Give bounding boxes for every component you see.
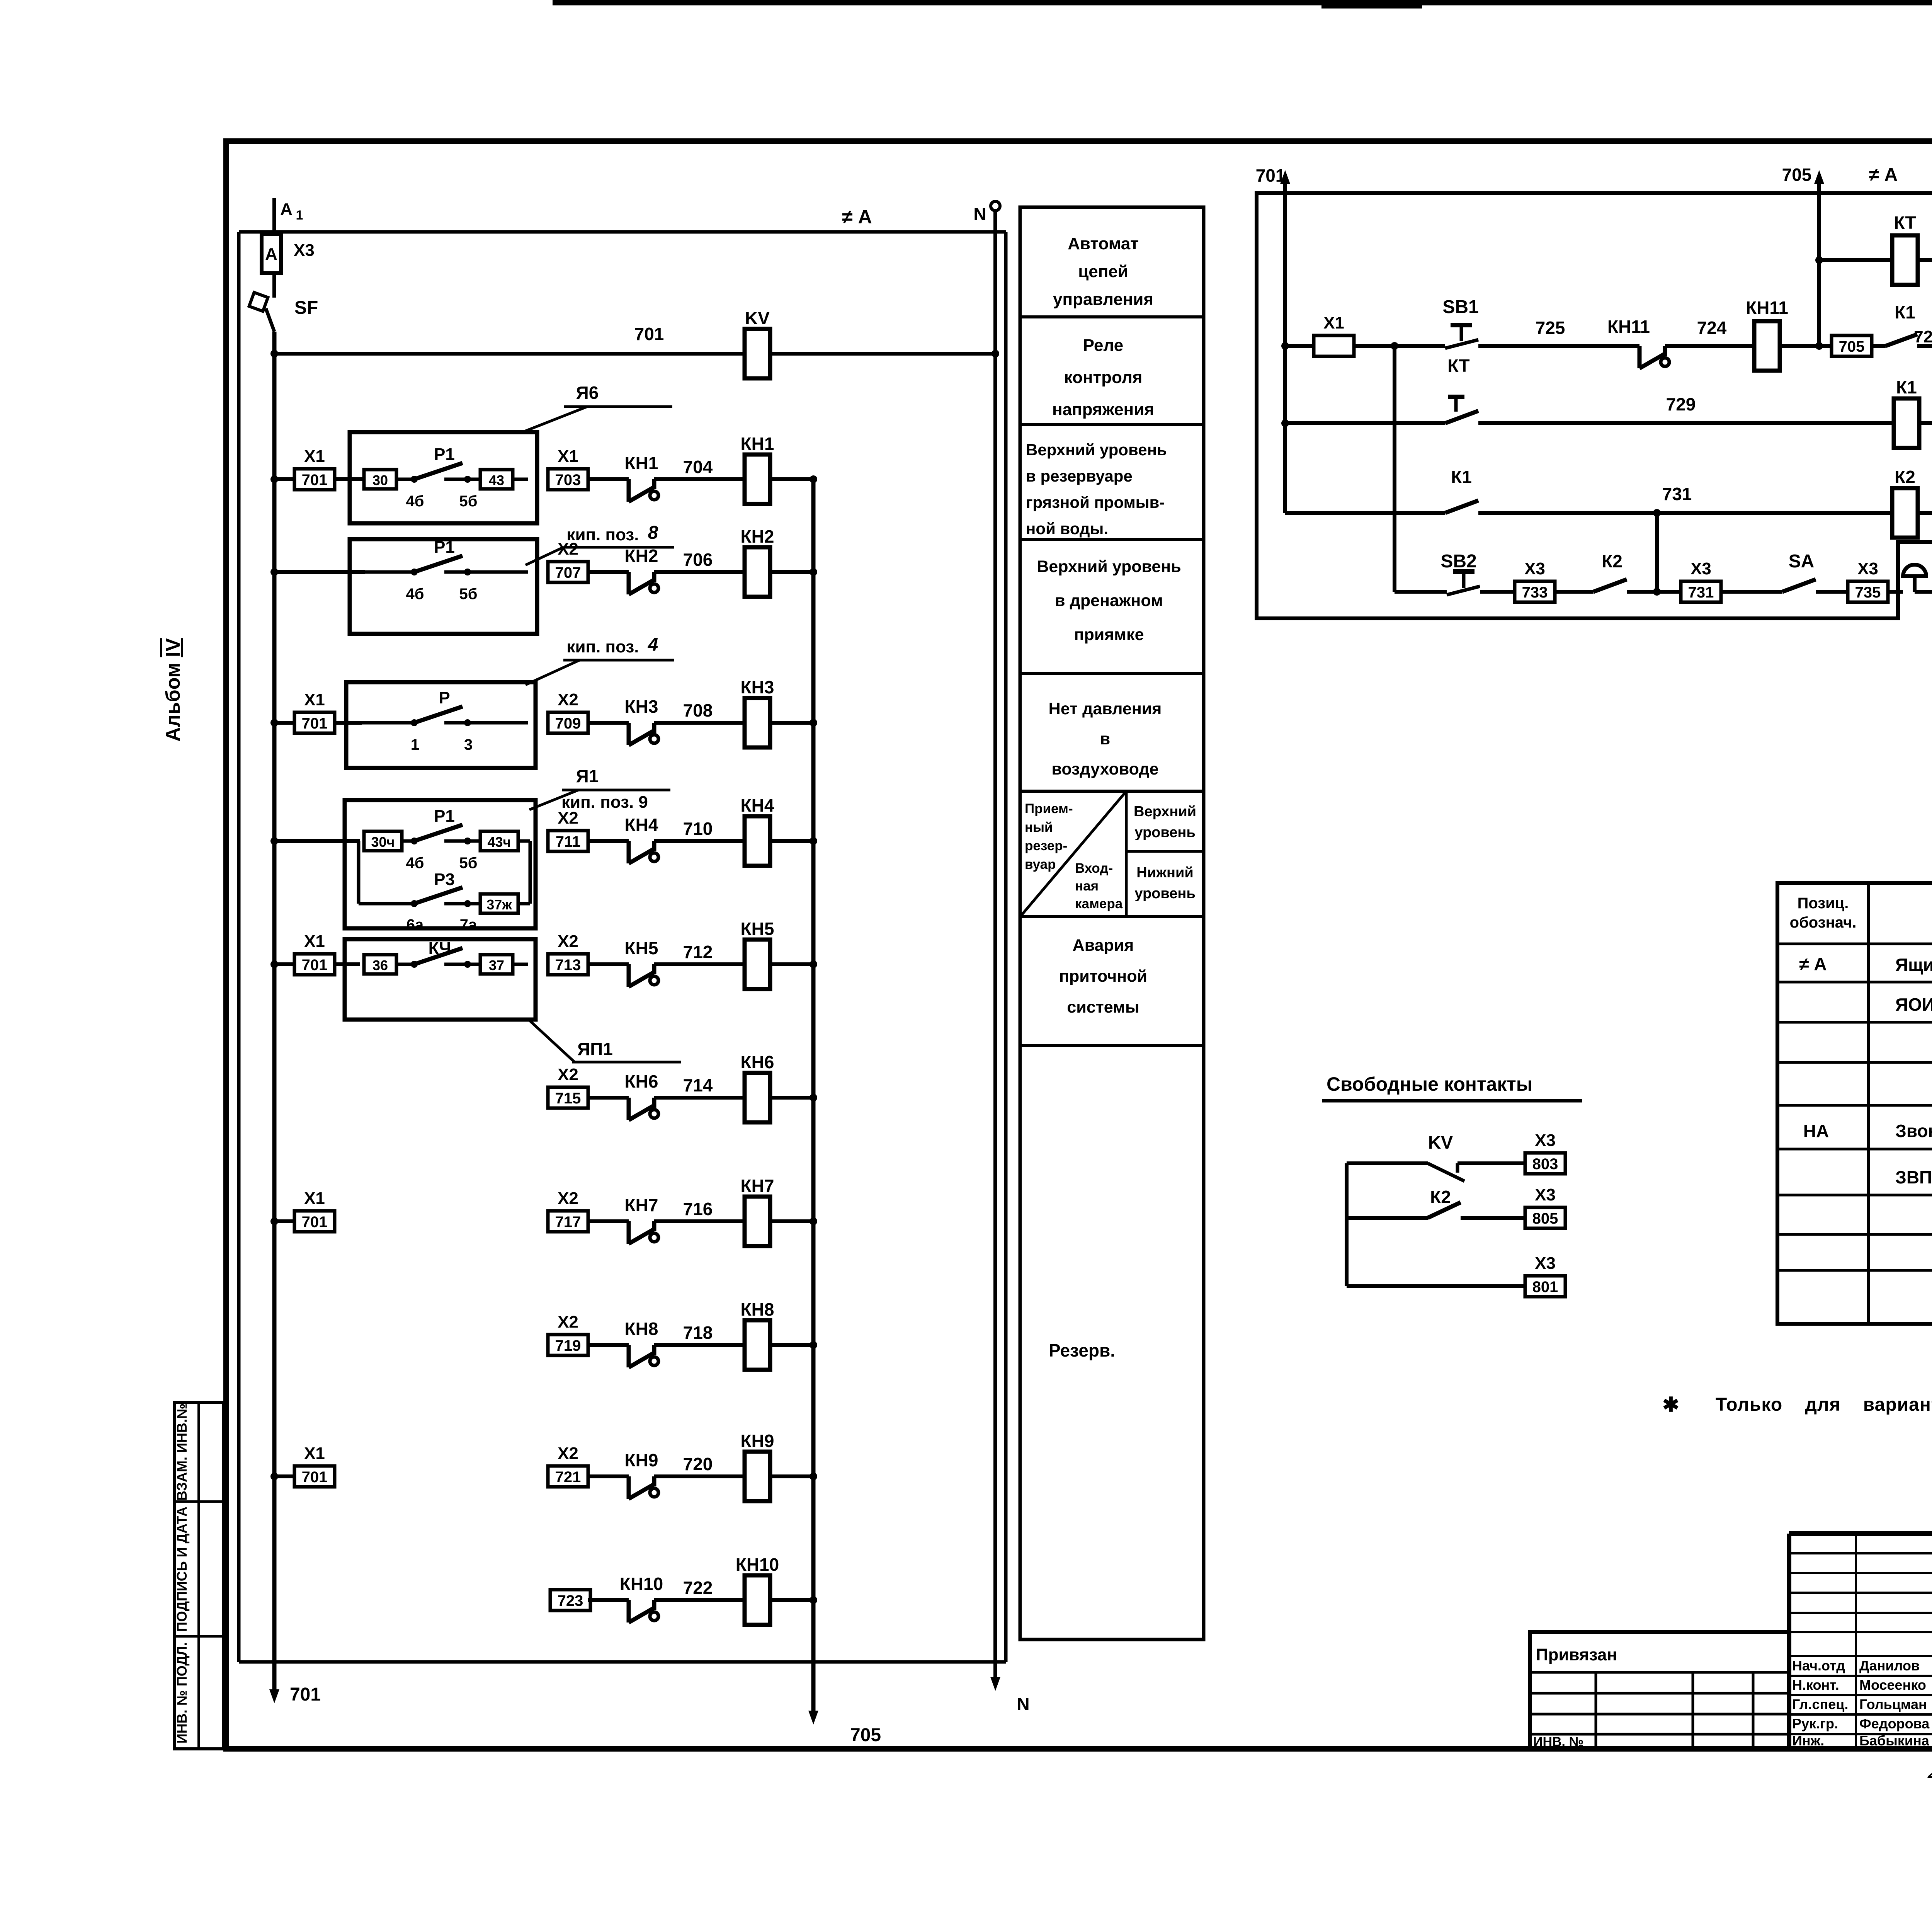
svg-text:805: 805 — [1532, 1210, 1558, 1227]
svg-text:Верхний: Верхний — [1134, 804, 1196, 820]
svg-text:ЗВП-220, ТУ16.739-059-76: ЗВП-220, ТУ16.739-059-76 — [1895, 1167, 1932, 1187]
contact KH4 — [629, 841, 658, 863]
svg-text:Мосеенко: Мосеенко — [1859, 1677, 1926, 1693]
title left block row line 4 — [1530, 1733, 1789, 1736]
svg-text:Позиц.: Позиц. — [1798, 895, 1849, 912]
terminal 43ч in box YA1 — [480, 831, 518, 851]
label contact KH5 — [625, 938, 658, 958]
label 5b r4 — [459, 855, 478, 872]
svg-text:Р3: Р3 — [434, 870, 455, 889]
wire contact to coil KH6 — [654, 1096, 745, 1100]
left stamp column outer box — [175, 1403, 223, 1749]
svg-text:Ящик сигнализации: Ящик сигнализации — [1895, 955, 1932, 975]
bus 701 right-circuit vertical — [1283, 184, 1287, 513]
section title Свободные контакты — [1327, 1073, 1532, 1095]
riser rung3 to rung4 — [1655, 513, 1659, 592]
svg-text:ная: ная — [1075, 878, 1099, 894]
junction dot bus N at wire 701 — [992, 350, 999, 358]
enclosure box A top edge — [239, 230, 1006, 234]
wire 705 node to terminal — [1819, 344, 1832, 348]
middle table text cell reserve — [1049, 1340, 1115, 1360]
side caption Альбом IV — [162, 638, 184, 742]
node dot r5 right+lead — [444, 961, 480, 968]
svg-text:733: 733 — [1522, 584, 1548, 601]
svg-text:≠ А: ≠ А — [1799, 954, 1827, 974]
svg-text:КТ: КТ — [1894, 213, 1916, 233]
wire 705 riser arrow up — [1814, 170, 1824, 184]
svg-text:803: 803 — [1532, 1156, 1558, 1173]
terminal X3 803 — [1525, 1131, 1565, 1174]
terminal X2 711 row 4 — [548, 809, 588, 851]
stamp label Инв.№ подл. — [174, 1642, 190, 1743]
svg-text:727: 727 — [1914, 327, 1932, 346]
contact K1 no rung1 — [1886, 334, 1932, 346]
svg-text:✱: ✱ — [1662, 1394, 1679, 1416]
svg-text:X1: X1 — [304, 690, 325, 709]
callout label YA1 — [576, 766, 599, 786]
terminal X1 701 row 3 — [294, 690, 335, 733]
wire X2 to contact KH5 — [588, 962, 629, 966]
junction dot 705 riser KT rung — [1815, 256, 1823, 264]
footnote asterisk — [1662, 1394, 1679, 1416]
wire coil KH1 to bus R — [770, 477, 813, 481]
wire X2 to contact KH6 — [588, 1096, 629, 1100]
node N circle top — [991, 201, 1000, 211]
wire A1 drop — [272, 198, 276, 234]
wire coil KH8 to bus R — [770, 1343, 813, 1347]
stamp label Взам.инв.№ — [174, 1403, 190, 1501]
svg-text:Нет давления: Нет давления — [1049, 700, 1162, 718]
pushbutton SB2 — [1447, 572, 1480, 595]
svg-text:Бабыкина: Бабыкина — [1859, 1733, 1930, 1748]
signature table grid — [1789, 1534, 1932, 1749]
relay coil K1 — [1894, 377, 1919, 448]
node 4b dot — [411, 476, 418, 483]
pushbutton SB1 — [1445, 325, 1478, 348]
svg-text:уровень: уровень — [1134, 885, 1195, 902]
wire bus L to X1 box row 1 — [274, 477, 294, 481]
svg-text:X1: X1 — [304, 1189, 325, 1208]
label 4b r4 — [406, 855, 424, 872]
bus 701 right-circuit arrow up — [1280, 170, 1290, 184]
svg-text:ПОДПИСЬ И ДАТА: ПОДПИСЬ И ДАТА — [174, 1507, 190, 1632]
svg-text:X2: X2 — [558, 932, 578, 951]
wire 701 to coil KV — [274, 352, 745, 356]
junction dot bus R row 7 — [810, 1217, 817, 1225]
wire X1 to sensor box row 1 — [335, 477, 365, 481]
wire contact to coil KH9 — [654, 1474, 745, 1478]
svg-text:722: 722 — [683, 1578, 713, 1598]
breaker SF symbol — [249, 293, 274, 332]
riser SB2 vertical — [1393, 346, 1396, 592]
svg-text:Рук.гр.: Рук.гр. — [1792, 1716, 1838, 1731]
spec row HA pos — [1803, 1121, 1829, 1141]
relay coil K2 — [1892, 467, 1918, 538]
callout leader YAP1 — [529, 1020, 681, 1062]
svg-text:725: 725 — [1536, 318, 1565, 338]
svg-text:SB1: SB1 — [1442, 297, 1478, 317]
svg-text:707: 707 — [555, 564, 581, 581]
contact KV free — [1428, 1163, 1464, 1181]
svg-text:X1: X1 — [304, 447, 325, 466]
label wire 720 — [683, 1454, 713, 1474]
wire contact to coil KH4 — [654, 839, 745, 843]
label 3 — [464, 736, 473, 753]
svg-text:43ч: 43ч — [488, 834, 511, 850]
enclosure box A left edge — [237, 232, 241, 1662]
svg-text:X2: X2 — [558, 1444, 578, 1463]
label K2 free — [1430, 1187, 1451, 1207]
drawing frame border — [226, 141, 1932, 1749]
svg-text:кип. поз.: кип. поз. — [566, 637, 639, 656]
wire riser to SB1 — [1395, 344, 1445, 348]
label SF — [294, 298, 318, 318]
label wire 729 — [1666, 394, 1696, 414]
svg-text:ИНВ. №: ИНВ. № — [1533, 1735, 1583, 1749]
junction dot bus L wire 701 — [270, 350, 278, 358]
relay coil KH8 — [741, 1299, 774, 1370]
spec row1 pos ≠A — [1799, 954, 1827, 974]
left stamp divider line 1 — [175, 1500, 223, 1503]
wire bell to bus N — [1915, 590, 1932, 594]
relay coil KH11 — [1746, 298, 1788, 371]
terminal 30 in box YA6 — [364, 470, 396, 489]
junction dot bus R row 8 — [810, 1341, 817, 1349]
svg-text:4б: 4б — [406, 586, 424, 603]
svg-text:К2: К2 — [1895, 467, 1915, 487]
label 701 bottom arrow — [290, 1684, 321, 1705]
svg-text:Звонок электрический: Звонок электрический — [1895, 1121, 1932, 1141]
svg-text:X3: X3 — [1524, 559, 1545, 578]
svg-text:SA: SA — [1789, 551, 1815, 572]
terminal 30ч in box YA1 — [364, 831, 402, 851]
junction dot bus R row 3 — [810, 719, 817, 727]
svg-text:ный: ный — [1025, 820, 1053, 835]
relay coil KT — [1892, 213, 1918, 285]
junction dot bus R row 5 — [810, 960, 817, 968]
svg-text:приточной: приточной — [1059, 967, 1147, 986]
middle table split text upper-left — [1025, 801, 1073, 872]
svg-text:Н.конт.: Н.конт. — [1792, 1677, 1839, 1693]
contact P1 row2 left lead — [365, 570, 414, 574]
middle table split cell diagonal — [1020, 791, 1126, 917]
junction dot rung2 left — [1281, 419, 1289, 427]
spec row2 name — [1895, 994, 1932, 1015]
svg-text:709: 709 — [555, 715, 581, 732]
svg-text:7а: 7а — [460, 916, 477, 933]
wire SB1 to KH11 contact — [1478, 344, 1639, 348]
terminal X2 715 row 6 — [548, 1065, 588, 1108]
label wire 701 — [634, 324, 664, 344]
contact P1 blade row2 — [414, 556, 463, 572]
svg-text:КН2: КН2 — [625, 546, 658, 566]
svg-text:КН4: КН4 — [625, 815, 658, 835]
svg-text:К1: К1 — [1896, 377, 1917, 397]
junction dot rung3 — [1653, 509, 1661, 517]
svg-text:1: 1 — [411, 736, 419, 753]
title left block row line 3 — [1530, 1713, 1789, 1716]
terminal X1 right-circuit — [1314, 313, 1354, 356]
title block outline top — [1789, 1531, 1932, 1536]
svg-text:ИНВ. № ПОДЛ.: ИНВ. № ПОДЛ. — [174, 1642, 190, 1743]
wire 735 to bell — [1888, 590, 1903, 594]
svg-text:Свободные контакты: Свободные контакты — [1327, 1073, 1532, 1095]
handwritten archive number — [1926, 1759, 1932, 1783]
svg-text:Реле: Реле — [1083, 336, 1124, 355]
svg-text:Гольцман: Гольцман — [1859, 1696, 1927, 1712]
svg-text:705: 705 — [1839, 338, 1865, 355]
svg-text:системы: системы — [1067, 998, 1139, 1016]
wire bus L to sensor box row 4 — [274, 839, 360, 843]
left stamp column divider vertical — [197, 1403, 200, 1749]
svg-text:КН4: КН4 — [741, 795, 774, 815]
junction dot riser SB2 — [1391, 342, 1398, 350]
svg-text:704: 704 — [683, 457, 713, 477]
label contact KH7 — [625, 1195, 658, 1215]
junction dot bus R row 4 — [810, 837, 817, 845]
wire 43 to box edge — [513, 478, 528, 481]
bus R vertical (coil return 705) — [811, 479, 816, 1718]
svg-text:Федорова: Федорова — [1859, 1716, 1930, 1731]
wire X2 to contact KH9 — [588, 1474, 629, 1478]
wire K2 free contact — [1347, 1216, 1428, 1220]
title left block row line 1 — [1530, 1671, 1789, 1674]
svg-text:Гл.спец.: Гл.спец. — [1792, 1696, 1848, 1712]
sensor box outline row 3 — [346, 682, 536, 768]
enclosure box A bottom edge — [239, 1660, 1006, 1664]
wire contact to coil KH3 — [654, 721, 745, 725]
svg-text:701: 701 — [302, 472, 328, 489]
node 5b dot+lead row2 — [444, 569, 528, 575]
callout label kip.poz.9 — [561, 793, 648, 812]
wire X2 to contact KH3 — [588, 721, 629, 725]
svg-text:X2: X2 — [558, 1065, 578, 1084]
svg-text:701: 701 — [302, 1469, 328, 1486]
wire KV free contact — [1347, 1161, 1428, 1165]
wire contact to coil KH1 — [654, 477, 745, 481]
contact KH3 — [629, 723, 658, 745]
wire 36 to node r5 — [396, 963, 414, 966]
label X3 at box A — [294, 241, 315, 260]
bus R bottom arrow — [808, 1711, 818, 1725]
label SB1 — [1442, 297, 1478, 317]
svg-text:723: 723 — [558, 1592, 583, 1609]
svg-text:4б: 4б — [406, 855, 424, 872]
svg-text:Авария: Авария — [1073, 936, 1134, 955]
svg-text:X2: X2 — [558, 540, 578, 558]
bus L bottom arrow — [269, 1689, 279, 1703]
svg-text:≠ А: ≠ А — [842, 206, 872, 228]
svg-text:КН6: КН6 — [741, 1052, 774, 1072]
contact P1 blade r4 — [414, 825, 463, 841]
svg-text:Р1: Р1 — [434, 538, 455, 557]
label contact KH4 — [625, 815, 658, 835]
label ≠A right circuit — [1869, 165, 1898, 185]
relay coil KH2 — [741, 526, 774, 597]
label wire 727 — [1914, 327, 1932, 346]
spec table grid — [1777, 883, 1932, 1324]
sensor box outline row 4 — [345, 800, 536, 928]
svg-text:37ж: 37ж — [486, 897, 512, 913]
wire rung1 bus to X1 — [1285, 344, 1314, 348]
terminal X1 701 row 9 — [294, 1444, 335, 1487]
wire KT rung — [1819, 258, 1892, 262]
svg-text:708: 708 — [683, 700, 713, 720]
wire coil KH7 to bus R — [770, 1219, 813, 1223]
label contact KH2 — [625, 546, 658, 566]
wire coil KH11 to 705 node — [1780, 344, 1819, 348]
label contact KH3 — [625, 696, 658, 717]
middle table text cell 7 — [1059, 936, 1147, 1016]
svg-text:контроля: контроля — [1064, 368, 1143, 387]
relay coil KH7 — [741, 1176, 774, 1246]
terminal X2 709 row 3 — [548, 690, 588, 733]
svg-text:Резерв.: Резерв. — [1049, 1340, 1115, 1360]
svg-text:Р1: Р1 — [434, 807, 455, 826]
middle function table grid — [1020, 207, 1204, 1639]
wire junction to coil K2 — [1657, 511, 1892, 515]
label contact KH9 — [625, 1450, 658, 1470]
wire coil KH5 to bus R — [770, 962, 813, 966]
wire bus L to X1 box row 5 — [274, 962, 294, 966]
relay coil KV — [745, 308, 770, 378]
wire riser to SB2 — [1395, 590, 1447, 594]
svg-text:Вход-: Вход- — [1075, 861, 1113, 876]
svg-text:714: 714 — [683, 1075, 713, 1095]
spec header Позиц обознач — [1790, 895, 1857, 931]
svg-text:721: 721 — [555, 1469, 581, 1486]
spec row1 name — [1895, 955, 1932, 975]
svg-text:ЯОИ 9501-0004БУХЛЧ: ЯОИ 9501-0004БУХЛЧ — [1895, 994, 1932, 1015]
label wire 716 — [683, 1199, 713, 1219]
junction vertical left in box YA1 — [357, 841, 361, 904]
terminal X3 731 — [1681, 559, 1721, 602]
label ≠A top — [842, 206, 872, 228]
wire rung3 to junction — [1478, 511, 1657, 515]
contact KH7 — [629, 1221, 658, 1244]
label 4b row2 — [406, 586, 424, 603]
svg-text:КН3: КН3 — [625, 696, 658, 717]
svg-text:X3: X3 — [1857, 559, 1878, 578]
terminal X3 801 — [1525, 1254, 1565, 1297]
label contact SA — [1789, 551, 1815, 572]
relay coil KH9 — [741, 1431, 774, 1501]
svg-text:КН11: КН11 — [1746, 298, 1788, 318]
wire coil KH9 to bus R — [770, 1474, 813, 1478]
wire bus L to X1 box row 7 — [274, 1219, 294, 1223]
bell HA — [1903, 565, 1926, 592]
svg-text:X3: X3 — [1690, 559, 1711, 578]
svg-text:Р: Р — [439, 688, 450, 707]
wire coil K1 to bus N — [1919, 421, 1932, 425]
svg-text:SB2: SB2 — [1440, 551, 1476, 572]
wire coil KH4 to bus R — [770, 839, 813, 843]
svg-text:4б: 4б — [406, 493, 424, 510]
scan artifact black streak top edge — [553, 0, 1932, 9]
callout label kip.poz.8 — [566, 523, 658, 544]
svg-text:Привязан: Привязан — [1536, 1645, 1617, 1664]
svg-text:А: А — [265, 245, 277, 264]
relay coil KH4 — [741, 795, 774, 866]
svg-text:715: 715 — [555, 1090, 581, 1107]
label wire 714 — [683, 1075, 713, 1095]
junction dot rung1 left — [1281, 342, 1289, 350]
svg-text:N: N — [1017, 1694, 1029, 1714]
svg-text:ВЗАМ. ИНВ.№: ВЗАМ. ИНВ.№ — [174, 1403, 190, 1501]
wire 30 to node 4b — [396, 478, 414, 481]
svg-text:А: А — [280, 200, 293, 219]
svg-text:КН11: КН11 — [1607, 317, 1650, 337]
relay coil KH10 — [736, 1554, 779, 1625]
svg-text:X2: X2 — [558, 690, 578, 709]
wire junction to X3 731 — [1657, 590, 1681, 594]
svg-text:≠ А: ≠ А — [1869, 165, 1898, 185]
contact KH9 — [629, 1476, 658, 1499]
junction dot bus R row 1 — [810, 475, 817, 483]
terminal X3 735 — [1848, 559, 1888, 602]
wire terminal 705 to K1 contact — [1872, 344, 1886, 348]
terminal X2 717 row 7 — [548, 1189, 588, 1232]
svg-text:6а: 6а — [406, 916, 424, 933]
wire coil KH3 to bus R — [770, 721, 813, 725]
svg-text:Я1: Я1 — [576, 766, 599, 786]
footnote text — [1716, 1394, 1932, 1415]
svg-text:НА: НА — [1803, 1121, 1829, 1141]
label 5b — [459, 493, 478, 510]
contact KT timed — [1285, 397, 1478, 423]
svg-text:701: 701 — [302, 1214, 328, 1231]
wire coil KT to bus N — [1918, 258, 1932, 262]
svg-text:напряжения: напряжения — [1052, 400, 1154, 419]
svg-text:КН7: КН7 — [741, 1176, 774, 1196]
svg-text:SF: SF — [294, 298, 318, 318]
terminal X2 721 row 9 — [548, 1444, 588, 1487]
label wire 718 — [683, 1323, 713, 1343]
svg-text:грязной промыв-: грязной промыв- — [1026, 493, 1165, 511]
middle table split cell divider vertical — [1125, 791, 1128, 917]
svg-text:X1: X1 — [1323, 313, 1344, 332]
node 1 dot — [411, 719, 418, 726]
junction dot bus L row 3 — [270, 719, 278, 727]
bus L vertical (left ladder bus) — [272, 332, 277, 1697]
contact KH11 nc — [1639, 346, 1669, 368]
wire X1 to sensor box row 5 — [335, 962, 360, 966]
junction dot bus R row 10 — [810, 1596, 817, 1604]
svg-text:37: 37 — [489, 957, 504, 973]
label 701 right circuit — [1256, 165, 1286, 186]
terminal 43 in box YA6 — [480, 470, 513, 489]
svg-text:4: 4 — [648, 635, 658, 655]
label SB2 — [1440, 551, 1476, 572]
svg-text:КН9: КН9 — [741, 1431, 774, 1451]
contact KH6 — [629, 1098, 658, 1120]
spec row ZVP name — [1895, 1167, 1932, 1187]
svg-text:KV: KV — [1428, 1132, 1453, 1153]
label wire 725 — [1536, 318, 1565, 338]
svg-text:КН5: КН5 — [625, 938, 658, 958]
wire coil KH6 to bus R — [770, 1096, 813, 1100]
svg-text:701: 701 — [634, 324, 664, 344]
terminal X1 701 row 5 — [294, 932, 335, 975]
label N top — [973, 204, 986, 224]
wire bus L to X1 box row 3 — [274, 721, 294, 725]
svg-text:Автомат: Автомат — [1068, 234, 1139, 253]
contact KH5 — [629, 964, 658, 987]
wire X1 to sensor box row 3 — [335, 721, 362, 725]
svg-text:КН3: КН3 — [741, 677, 774, 697]
svg-text:KV: KV — [745, 308, 770, 328]
label 1 — [411, 736, 419, 753]
